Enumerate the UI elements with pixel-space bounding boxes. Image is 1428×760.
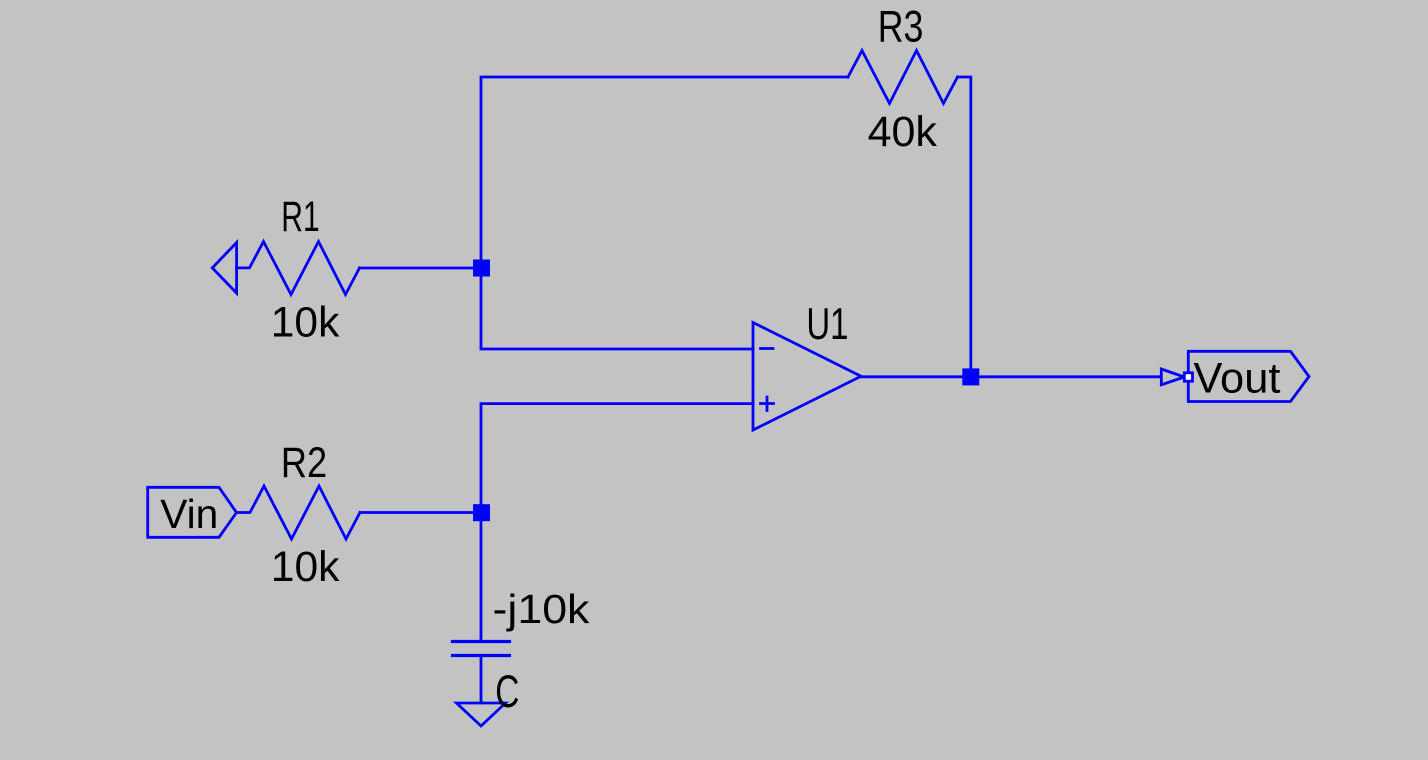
svg-text:C: C: [495, 667, 519, 717]
label 10k for R1: [271, 298, 340, 346]
svg-text:R2: R2: [281, 439, 327, 487]
node Vout flag: [1188, 351, 1309, 401]
wire: [481, 404, 753, 513]
node Vin flag: [148, 487, 237, 537]
wire: [480, 513, 483, 642]
svg-text:R3: R3: [878, 0, 924, 51]
resistor R1: [212, 242, 359, 295]
label R1: [281, 193, 319, 240]
svg-text:40k: 40k: [868, 108, 938, 156]
label R3: [878, 0, 924, 51]
svg-text:10k: 10k: [271, 543, 340, 590]
wire: [480, 656, 483, 703]
svg-text:10k: 10k: [271, 298, 340, 346]
resistor R3: [848, 51, 958, 104]
node junction A: [473, 260, 490, 277]
svg-text:U1: U1: [806, 299, 848, 349]
svg-text:Vin: Vin: [160, 491, 218, 537]
wire: [958, 77, 971, 377]
label R2: [281, 439, 327, 487]
node Vout pin: [1184, 373, 1192, 381]
label 40k for R3: [868, 108, 938, 156]
svg-text:-j10k: -j10k: [493, 587, 590, 633]
label U1: [806, 299, 848, 349]
op-amp U1: [753, 323, 861, 431]
svg-text:Vout: Vout: [1194, 355, 1281, 402]
node junction C: [962, 368, 979, 385]
node junction B: [473, 504, 490, 521]
capacitor C: [453, 642, 510, 656]
resistor R2: [237, 486, 361, 539]
svg-text:R1: R1: [281, 193, 319, 240]
label 10k for R2: [271, 543, 340, 590]
wire: [481, 77, 848, 349]
wire: [861, 375, 1161, 378]
label C: [495, 667, 519, 717]
node Vout arrow: [1161, 369, 1184, 385]
wire: [360, 511, 481, 514]
label Vout: [1194, 355, 1281, 402]
ground: [457, 703, 506, 726]
wire: [360, 267, 482, 270]
label -j10k for C: [493, 587, 590, 633]
label Vin: [160, 491, 218, 537]
